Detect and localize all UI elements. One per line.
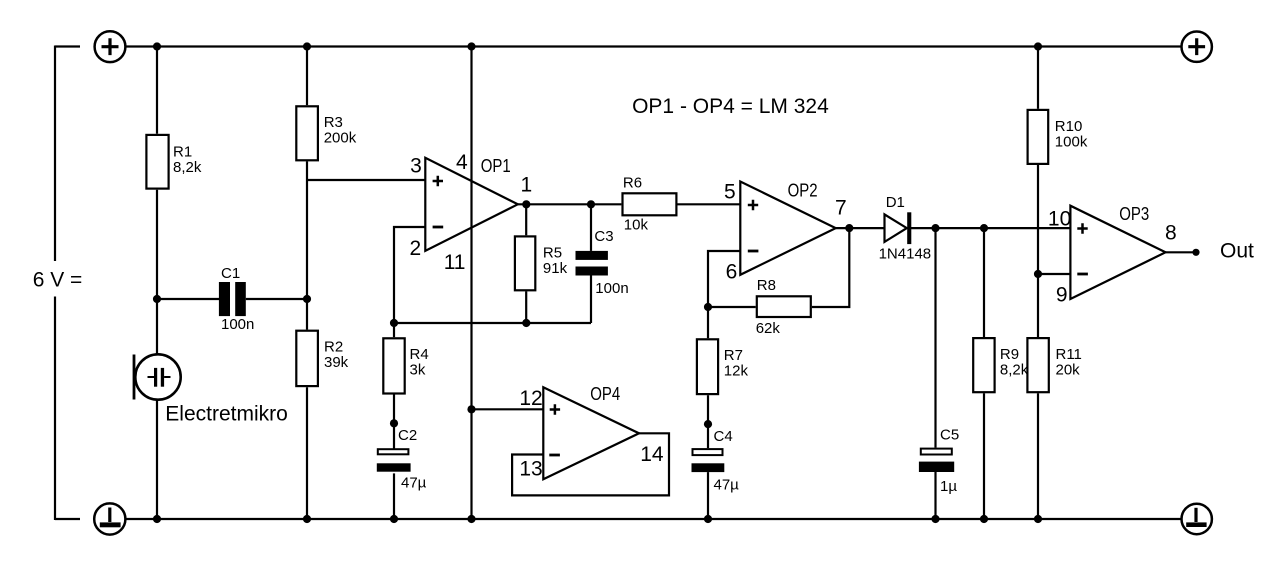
svg-text:47µ: 47µ bbox=[401, 474, 427, 491]
node Out terminal dot bbox=[1192, 249, 1199, 256]
ground terminal left bbox=[94, 503, 125, 534]
svg-text:47µ: 47µ bbox=[714, 477, 740, 494]
wire OP3 output to Out terminal bbox=[1166, 251, 1194, 253]
svg-text:8,2k: 8,2k bbox=[173, 159, 202, 176]
svg-text:C5: C5 bbox=[940, 427, 959, 444]
wire OP2 output to D1 anode bbox=[836, 227, 885, 229]
svg-text:91k: 91k bbox=[543, 260, 568, 277]
wire C5 bottom to ground rail bbox=[934, 472, 936, 519]
resistor R7 bbox=[697, 339, 718, 394]
junction bottom rail R2 bbox=[303, 515, 311, 523]
wire R5 bottom lead bbox=[525, 291, 527, 323]
wire OP1 supply pin4 pin11 vertical bbox=[470, 47, 472, 520]
wire OP4 feedback loop pin14 to pin13 bbox=[512, 433, 669, 495]
svg-text:OP2: OP2 bbox=[788, 180, 818, 201]
svg-text:100n: 100n bbox=[221, 316, 254, 333]
junction feedback R5 bbox=[522, 319, 530, 327]
capacitor C3 bbox=[576, 251, 608, 276]
OP1 minus marker bbox=[433, 226, 444, 229]
svg-text:R3: R3 bbox=[324, 114, 343, 131]
wire R8 right to OP2 output bbox=[812, 228, 849, 307]
capacitor C2 electrolytic bbox=[377, 449, 411, 471]
svg-text:4: 4 bbox=[456, 151, 468, 174]
battery plus terminal left bbox=[95, 31, 126, 62]
op-amp OP1 bbox=[425, 158, 518, 251]
resistor R3 bbox=[296, 106, 318, 160]
OP4 plus marker bbox=[550, 404, 560, 414]
svg-text:OP3: OP3 bbox=[1119, 203, 1149, 224]
junction bottom rail C2 bbox=[390, 515, 398, 523]
svg-text:R7: R7 bbox=[724, 347, 743, 364]
junction OP1 output R5 bbox=[522, 200, 530, 208]
wire C1 left lead bbox=[157, 298, 219, 300]
wire node to OP3 pin 9 bbox=[1038, 273, 1070, 275]
svg-text:100k: 100k bbox=[1055, 133, 1088, 150]
svg-text:9: 9 bbox=[1056, 284, 1068, 307]
svg-text:R9: R9 bbox=[1000, 346, 1019, 363]
svg-text:7: 7 bbox=[835, 197, 847, 220]
svg-text:R1: R1 bbox=[173, 143, 192, 160]
svg-text:1N4148: 1N4148 bbox=[879, 245, 932, 262]
svg-text:C1: C1 bbox=[221, 265, 240, 282]
svg-text:Electretmikro: Electretmikro bbox=[165, 402, 288, 425]
resistor R10 bbox=[1028, 110, 1049, 164]
resistor R6 bbox=[623, 193, 677, 215]
svg-text:C3: C3 bbox=[594, 228, 613, 245]
svg-text:5: 5 bbox=[724, 180, 736, 203]
resistor R11 bbox=[1027, 338, 1048, 392]
capacitor C4 electrolytic bbox=[692, 449, 725, 472]
svg-text:39k: 39k bbox=[324, 354, 349, 371]
svg-text:D1: D1 bbox=[886, 194, 905, 211]
wire R7 top lead bbox=[707, 307, 709, 338]
svg-text:R2: R2 bbox=[324, 339, 343, 356]
wire C2 bottom to ground rail bbox=[393, 473, 395, 519]
junction top rail OP1 supply bbox=[467, 42, 475, 50]
svg-text:R6: R6 bbox=[623, 174, 642, 191]
svg-text:3: 3 bbox=[410, 155, 422, 178]
wire mic to ground rail bbox=[156, 400, 158, 519]
wire C3 bottom stub bbox=[590, 276, 592, 324]
wire R9 top lead bbox=[983, 228, 985, 337]
svg-text:6 V =: 6 V = bbox=[33, 269, 83, 292]
svg-text:100n: 100n bbox=[595, 280, 628, 297]
junction D1 C5 node bbox=[931, 224, 939, 232]
wire R7 bottom to C4 bbox=[707, 395, 709, 448]
junction bottom rail mic bbox=[153, 515, 161, 523]
svg-text:2: 2 bbox=[410, 237, 422, 260]
svg-text:C4: C4 bbox=[714, 428, 733, 445]
svg-text:R10: R10 bbox=[1055, 118, 1083, 135]
svg-text:OP4: OP4 bbox=[590, 383, 620, 404]
svg-text:12k: 12k bbox=[724, 363, 749, 380]
wire OP2 inverting input loop bbox=[708, 251, 740, 307]
junction top rail R3 bbox=[303, 42, 311, 50]
op-amp OP3 bbox=[1070, 206, 1165, 299]
svg-text:1µ: 1µ bbox=[940, 478, 957, 495]
wire node to OP1 pin 3 bbox=[307, 179, 425, 181]
svg-text:10k: 10k bbox=[624, 217, 649, 234]
junction feedback R4 bbox=[390, 319, 398, 327]
svg-text:R5: R5 bbox=[543, 244, 562, 261]
wire C5 top lead bbox=[934, 228, 936, 448]
wire OP1 inverting input loop bbox=[394, 227, 425, 323]
svg-text:Out: Out bbox=[1220, 240, 1254, 263]
wire OP4 pin 12 to ground line bbox=[472, 408, 544, 410]
svg-text:OP1: OP1 bbox=[481, 155, 511, 176]
wire R10 bottom to R11 top bbox=[1037, 165, 1039, 337]
junction bottom rail R9 bbox=[980, 515, 988, 523]
wire R5 top lead bbox=[525, 204, 527, 235]
junction bottom rail C4 bbox=[704, 515, 712, 523]
OP3 minus marker bbox=[1077, 273, 1088, 276]
svg-text:10: 10 bbox=[1048, 208, 1071, 231]
wire R11 bottom to ground rail bbox=[1037, 393, 1039, 519]
svg-text:20k: 20k bbox=[1056, 362, 1081, 379]
wire top supply rail bbox=[126, 45, 1182, 47]
wire feedback bottom line OP1 bbox=[394, 322, 591, 324]
svg-text:200k: 200k bbox=[324, 130, 357, 147]
wire R3 bottom to R2 top bbox=[306, 161, 308, 329]
resistor R1 bbox=[146, 135, 168, 189]
wire R10 top lead bbox=[1037, 47, 1039, 109]
wire bottom ground rail bbox=[126, 518, 1182, 520]
svg-text:C2: C2 bbox=[398, 427, 417, 444]
wire R2 bottom to ground rail bbox=[306, 387, 308, 519]
junction R8 R7 node bbox=[704, 303, 712, 311]
wire R3 column top bbox=[306, 47, 308, 106]
diode D1 1N4148 bbox=[885, 212, 912, 244]
svg-text:1: 1 bbox=[520, 174, 532, 197]
wire battery left top stub bbox=[55, 45, 80, 47]
wire OP1 output to R6 bbox=[518, 203, 622, 205]
resistor R8 bbox=[757, 296, 811, 317]
svg-text:8,2k: 8,2k bbox=[1000, 362, 1029, 379]
svg-text:R4: R4 bbox=[410, 346, 429, 363]
svg-text:R8: R8 bbox=[757, 277, 776, 294]
junction top rail R1 bbox=[153, 42, 161, 50]
svg-text:OP1 - OP4 = LM 324: OP1 - OP4 = LM 324 bbox=[632, 95, 829, 118]
wire C3 top stub bbox=[590, 204, 592, 251]
junction D1 R9 node bbox=[980, 224, 988, 232]
OP2 plus marker bbox=[748, 200, 758, 210]
wire battery left vertical upper bbox=[54, 46, 56, 262]
junction bottom rail C5 bbox=[931, 515, 939, 523]
capacitor C5 electrolytic bbox=[919, 449, 954, 472]
junction R4 C2 bbox=[390, 419, 398, 427]
battery plus terminal right bbox=[1182, 32, 1212, 62]
wire battery left vertical lower bbox=[54, 297, 56, 521]
wire R1 column top bbox=[156, 47, 158, 134]
svg-text:8: 8 bbox=[1165, 222, 1177, 245]
junction bottom rail R11 bbox=[1034, 515, 1042, 523]
wire D1 cathode to OP3 pin 10 bbox=[909, 227, 1071, 229]
svg-text:12: 12 bbox=[519, 387, 542, 410]
junction OP3 pin9 R10 R11 bbox=[1034, 270, 1042, 278]
ground terminal right bbox=[1182, 504, 1212, 534]
svg-text:14: 14 bbox=[640, 443, 664, 466]
op-amp OP2 bbox=[740, 182, 835, 275]
wire R4 top lead bbox=[393, 323, 395, 337]
wire C4 bottom to ground rail bbox=[707, 472, 709, 519]
op-amp OP4 bbox=[543, 387, 639, 479]
junction bottom rail OP1 ground bbox=[467, 515, 475, 523]
OP3 plus marker bbox=[1077, 223, 1087, 233]
resistor R4 bbox=[383, 338, 404, 393]
wire battery left bottom stub bbox=[55, 518, 80, 520]
OP1 plus marker bbox=[433, 176, 443, 186]
wire R9 bottom to ground rail bbox=[983, 393, 985, 519]
electret microphone MIC bbox=[134, 354, 181, 399]
svg-text:3k: 3k bbox=[410, 362, 426, 379]
junction OP1 output C3 bbox=[587, 200, 595, 208]
wire R4 bottom to C2 bbox=[393, 395, 395, 450]
junction top rail R10 bbox=[1034, 42, 1042, 50]
resistor R2 bbox=[296, 331, 318, 386]
svg-text:R11: R11 bbox=[1056, 346, 1082, 363]
junction OP4 pin12 ground line bbox=[467, 405, 475, 413]
resistor R5 bbox=[515, 236, 535, 290]
resistor R9 bbox=[973, 338, 994, 392]
wire node to R8 left bbox=[708, 306, 756, 308]
wire R6 to OP2 pin 5 bbox=[678, 203, 741, 205]
wire R1 column to C1 node and mic bbox=[156, 190, 158, 355]
OP4 minus marker bbox=[549, 454, 560, 457]
OP2 minus marker bbox=[748, 250, 759, 253]
capacitor C1 bbox=[219, 282, 246, 316]
svg-text:62k: 62k bbox=[756, 320, 781, 337]
wire C1 right lead bbox=[246, 298, 307, 300]
junction C1 right node bbox=[303, 295, 311, 303]
svg-text:6: 6 bbox=[726, 260, 738, 283]
svg-text:11: 11 bbox=[444, 251, 466, 274]
svg-text:13: 13 bbox=[519, 457, 542, 480]
junction R7 C4 bbox=[704, 420, 712, 428]
junction OP2 output bbox=[845, 224, 853, 232]
junction C1 left node bbox=[153, 295, 161, 303]
